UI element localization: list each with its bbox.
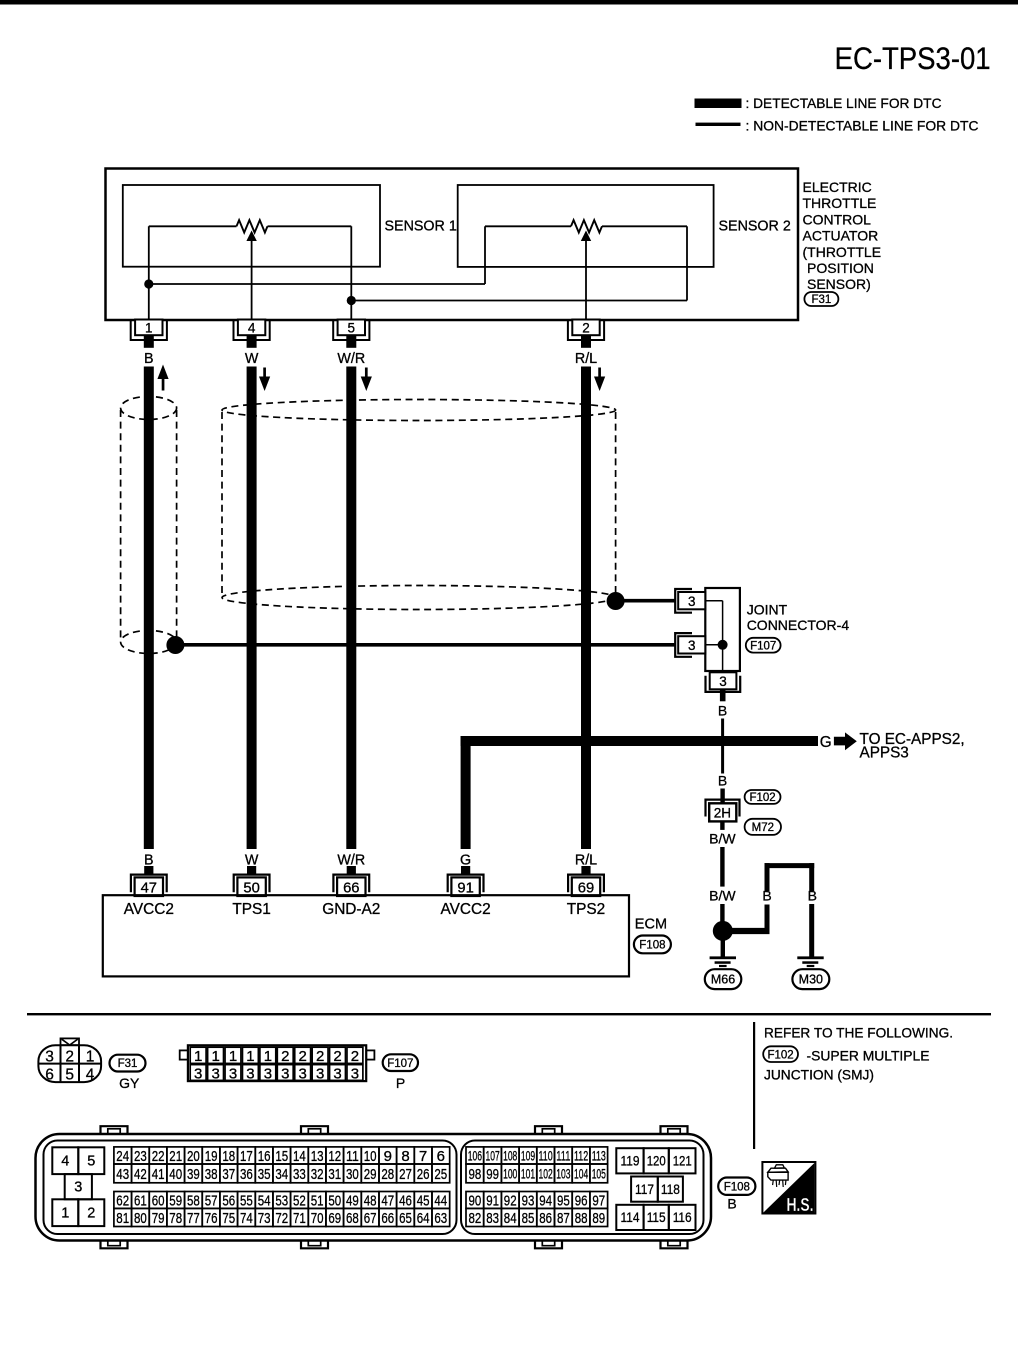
junction node on B line xyxy=(144,279,153,288)
svg-text:2: 2 xyxy=(351,1048,359,1065)
svg-text:72: 72 xyxy=(275,1210,288,1227)
svg-text:93: 93 xyxy=(522,1192,535,1209)
svg-text:B: B xyxy=(727,1196,736,1212)
connector ref F107 xyxy=(746,638,781,653)
wire: B/W upper segment xyxy=(720,847,724,887)
ECM connector large cavities right xyxy=(616,1148,695,1230)
svg-text:50: 50 xyxy=(243,880,259,896)
svg-text:1: 1 xyxy=(246,1048,254,1065)
svg-text:47: 47 xyxy=(141,880,157,896)
svg-text:30: 30 xyxy=(346,1166,359,1183)
svg-text:JOINT: JOINT xyxy=(747,602,788,618)
svg-text:3: 3 xyxy=(351,1065,359,1082)
svg-text:94: 94 xyxy=(539,1192,552,1209)
svg-text:3: 3 xyxy=(45,1049,54,1066)
svg-text:61: 61 xyxy=(134,1192,147,1209)
electric throttle control actuator box xyxy=(106,169,799,321)
svg-text:18: 18 xyxy=(222,1148,235,1165)
svg-text:6: 6 xyxy=(45,1067,54,1084)
wire W (thick vertical) xyxy=(247,367,257,850)
wire: B thin segment below G line xyxy=(721,746,724,774)
svg-text:69: 69 xyxy=(578,880,594,896)
svg-text:116: 116 xyxy=(673,1209,692,1225)
wire: pin1 riser xyxy=(148,226,150,319)
svg-text:-SUPER MULTIPLE: -SUPER MULTIPLE xyxy=(807,1048,930,1063)
svg-text:52: 52 xyxy=(293,1192,306,1209)
svg-text:1: 1 xyxy=(211,1048,219,1065)
svg-text:53: 53 xyxy=(275,1192,288,1209)
wire: node to ground stem xyxy=(721,939,725,957)
svg-text:64: 64 xyxy=(417,1210,430,1227)
wire: resistor 1 right lead xyxy=(268,225,352,227)
svg-text:25: 25 xyxy=(434,1166,447,1183)
label JUNCTION (SMJ) xyxy=(764,1068,874,1083)
svg-text:2: 2 xyxy=(316,1048,324,1065)
svg-text:POSITION: POSITION xyxy=(807,260,874,276)
wire: left B leg up xyxy=(765,863,770,934)
svg-text:48: 48 xyxy=(364,1192,377,1209)
connector ref F102 (footer) xyxy=(763,1046,798,1062)
label GY xyxy=(119,1075,140,1091)
label JOINT CONNECTOR-4 xyxy=(747,602,850,633)
svg-text:90: 90 xyxy=(469,1192,482,1209)
svg-text:46: 46 xyxy=(399,1192,412,1209)
joint connector pin 3 (top left) xyxy=(675,589,705,613)
label B (left leg) xyxy=(762,887,771,903)
svg-text:3: 3 xyxy=(246,1065,254,1082)
svg-text:65: 65 xyxy=(399,1210,412,1227)
joint connector-4 body xyxy=(705,588,740,671)
svg-text:4: 4 xyxy=(86,1067,95,1084)
svg-text:41: 41 xyxy=(152,1166,165,1183)
svg-text:89: 89 xyxy=(592,1210,605,1227)
svg-text:69: 69 xyxy=(328,1210,341,1227)
legend: non-detectable line for DTC xyxy=(696,118,979,133)
connector ref F102 xyxy=(745,790,781,804)
label B (above SMJ) xyxy=(718,772,727,788)
svg-text:AVCC2: AVCC2 xyxy=(441,901,491,918)
wire: B to SMJ 2H xyxy=(720,789,724,803)
separator line xyxy=(27,1013,991,1015)
ECM pin 91 xyxy=(448,866,484,896)
down arrow beside W/R wire xyxy=(361,368,372,392)
ECM connector pin grid right xyxy=(466,1147,608,1227)
connector ref F108 (ECM) xyxy=(634,936,671,954)
svg-text:17: 17 xyxy=(240,1148,253,1165)
svg-text:19: 19 xyxy=(205,1148,218,1165)
page top border bar xyxy=(0,0,1018,5)
ECM connector large cavities left xyxy=(52,1147,104,1226)
svg-text:78: 78 xyxy=(169,1210,182,1227)
joint connector pin 3 (lower left) xyxy=(675,633,705,657)
wire G (thick vertical) xyxy=(461,736,471,849)
svg-text:3: 3 xyxy=(688,638,696,653)
svg-text:G: G xyxy=(820,734,832,751)
svg-text:GY: GY xyxy=(119,1075,140,1091)
svg-text:F107: F107 xyxy=(387,1058,413,1070)
actuator pin 4 xyxy=(234,320,270,348)
footer divider xyxy=(753,1022,755,1149)
svg-text:60: 60 xyxy=(152,1192,165,1209)
svg-text:101: 101 xyxy=(521,1166,535,1181)
joint connector pin 3 (bottom) xyxy=(706,672,741,701)
sensor 1 sub-box xyxy=(123,185,380,267)
svg-text:CONTROL: CONTROL xyxy=(803,211,872,227)
connector ref F31 (footer) xyxy=(110,1055,146,1072)
svg-text:75: 75 xyxy=(222,1210,235,1227)
svg-text:9: 9 xyxy=(384,1148,392,1165)
svg-text:84: 84 xyxy=(504,1210,517,1227)
svg-text:3: 3 xyxy=(211,1065,219,1082)
svg-text:2: 2 xyxy=(281,1048,289,1065)
svg-text:86: 86 xyxy=(539,1210,552,1227)
svg-text:68: 68 xyxy=(346,1210,359,1227)
svg-text:2: 2 xyxy=(87,1206,95,1222)
svg-text:102: 102 xyxy=(539,1166,553,1181)
svg-text:1: 1 xyxy=(145,321,153,336)
svg-text:117: 117 xyxy=(635,1181,654,1197)
svg-text:H.S.: H.S. xyxy=(787,1195,814,1215)
label P xyxy=(396,1075,405,1091)
svg-text:24: 24 xyxy=(116,1148,129,1165)
svg-text:36: 36 xyxy=(240,1166,253,1183)
svg-text:3: 3 xyxy=(74,1180,82,1196)
svg-text:81: 81 xyxy=(116,1210,129,1227)
svg-text:70: 70 xyxy=(311,1210,324,1227)
svg-text:THROTTLE: THROTTLE xyxy=(803,195,877,211)
svg-text:34: 34 xyxy=(275,1166,288,1183)
svg-text:96: 96 xyxy=(575,1192,588,1209)
svg-text:62: 62 xyxy=(116,1192,129,1209)
ground junction node xyxy=(713,921,733,941)
connector face F31 xyxy=(38,1038,101,1083)
connector face F107 xyxy=(180,1045,375,1082)
svg-text:5: 5 xyxy=(348,321,356,336)
shield drain node (big cylinder) xyxy=(607,592,625,610)
svg-text:121: 121 xyxy=(673,1153,692,1169)
svg-text:CONNECTOR-4: CONNECTOR-4 xyxy=(747,617,850,633)
svg-text:119: 119 xyxy=(621,1153,640,1169)
H.S. view mark xyxy=(762,1162,815,1215)
label G xyxy=(820,734,832,751)
svg-text:2: 2 xyxy=(582,321,590,336)
resistor sensor 2 xyxy=(571,220,602,232)
svg-text:F107: F107 xyxy=(750,640,776,652)
ground symbol M66 xyxy=(710,956,736,967)
svg-text:107: 107 xyxy=(486,1148,500,1163)
svg-text:3: 3 xyxy=(281,1065,289,1082)
svg-text:2: 2 xyxy=(299,1048,307,1065)
svg-text:12: 12 xyxy=(328,1148,341,1165)
svg-text:1: 1 xyxy=(61,1206,69,1222)
label B/W (above ground node) xyxy=(709,887,736,903)
svg-text:66: 66 xyxy=(381,1210,394,1227)
wire R/L (thick vertical) xyxy=(581,367,591,850)
shield cylinder around W, W/R, R/L wires xyxy=(222,400,616,610)
svg-text:(THROTTLE: (THROTTLE xyxy=(803,244,882,260)
svg-text:73: 73 xyxy=(258,1210,271,1227)
wire: resistor 2 right lead xyxy=(602,225,687,227)
ECM connector face outline xyxy=(36,1126,712,1248)
svg-text:F108: F108 xyxy=(639,940,665,952)
svg-text:91: 91 xyxy=(486,1192,499,1209)
svg-text:100: 100 xyxy=(503,1166,517,1181)
svg-text:42: 42 xyxy=(134,1166,147,1183)
ECM pin 66 xyxy=(333,866,369,896)
svg-text:37: 37 xyxy=(222,1166,235,1183)
svg-text:M30: M30 xyxy=(799,973,823,987)
svg-text:SENSOR 2: SENSOR 2 xyxy=(719,219,791,235)
svg-text:15: 15 xyxy=(275,1148,288,1165)
svg-text:8: 8 xyxy=(401,1148,409,1165)
title EC-TPS3-01 xyxy=(835,40,991,76)
svg-text:M66: M66 xyxy=(711,973,735,987)
svg-text:50: 50 xyxy=(328,1192,341,1209)
connector ref F108 (footer) xyxy=(718,1178,755,1195)
svg-text:51: 51 xyxy=(311,1192,324,1209)
wire: shield drain to joint connector pin 3 (lower) xyxy=(183,643,676,647)
ECM connector pin grid left xyxy=(114,1147,450,1227)
svg-text:B/W: B/W xyxy=(709,831,736,847)
svg-text:57: 57 xyxy=(205,1192,218,1209)
svg-text:58: 58 xyxy=(187,1192,200,1209)
svg-text:B: B xyxy=(718,772,727,788)
svg-text:SENSOR): SENSOR) xyxy=(807,276,871,292)
junction node on W/R line xyxy=(347,296,356,305)
wiper arrow sensor 2 xyxy=(581,231,591,320)
svg-text:71: 71 xyxy=(293,1210,306,1227)
svg-text:ELECTRIC: ELECTRIC xyxy=(803,179,872,195)
wire: B/W lower segment xyxy=(720,904,724,922)
svg-text:F108: F108 xyxy=(724,1181,750,1193)
svg-text:120: 120 xyxy=(647,1153,666,1169)
svg-text:13: 13 xyxy=(311,1148,324,1165)
svg-text:39: 39 xyxy=(187,1166,200,1183)
label SENSOR 2 xyxy=(719,219,791,235)
svg-text:3: 3 xyxy=(719,674,727,689)
svg-text:20: 20 xyxy=(187,1148,200,1165)
svg-text:3: 3 xyxy=(194,1065,202,1082)
svg-text:88: 88 xyxy=(575,1210,588,1227)
ECM pin 69 xyxy=(568,866,604,896)
svg-text:28: 28 xyxy=(381,1166,394,1183)
svg-text:32: 32 xyxy=(311,1166,324,1183)
ECM pin 47 xyxy=(131,866,167,896)
svg-text:JUNCTION (SMJ): JUNCTION (SMJ) xyxy=(764,1068,874,1083)
actuator pin 2 xyxy=(568,320,604,348)
wire G (thick horizontal to EC-APPS2) xyxy=(461,736,818,746)
svg-text:TPS1: TPS1 xyxy=(232,901,271,918)
svg-text:3: 3 xyxy=(264,1065,272,1082)
svg-text:118: 118 xyxy=(661,1181,680,1197)
svg-text:83: 83 xyxy=(486,1210,499,1227)
label ECM xyxy=(635,916,667,932)
joint connector internal bus xyxy=(705,601,727,671)
wire: right B leg down xyxy=(809,863,814,956)
wire: B node to sensor2 left xyxy=(149,283,485,285)
svg-text:87: 87 xyxy=(557,1210,570,1227)
svg-text:SENSOR 1: SENSOR 1 xyxy=(385,219,457,235)
ECM pin 50 xyxy=(234,866,270,896)
svg-text:W: W xyxy=(245,351,259,367)
svg-text:16: 16 xyxy=(258,1148,271,1165)
svg-text:63: 63 xyxy=(434,1210,447,1227)
svg-text:GND-A2: GND-A2 xyxy=(322,901,380,918)
wire B (thick vertical) xyxy=(144,367,154,850)
svg-text:AVCC2: AVCC2 xyxy=(124,901,174,918)
svg-text:29: 29 xyxy=(364,1166,377,1183)
svg-text:1: 1 xyxy=(264,1048,272,1065)
svg-text:B: B xyxy=(762,887,771,903)
svg-text:74: 74 xyxy=(240,1210,253,1227)
svg-text:77: 77 xyxy=(187,1210,200,1227)
svg-text:23: 23 xyxy=(134,1148,147,1165)
svg-text:105: 105 xyxy=(592,1166,606,1181)
svg-text:49: 49 xyxy=(346,1192,359,1209)
wire: resistor 2 left lead xyxy=(485,225,571,227)
svg-text:47: 47 xyxy=(381,1192,394,1209)
svg-text:5: 5 xyxy=(87,1154,95,1170)
wire: branch from node to B legs xyxy=(730,928,770,934)
svg-text:F31: F31 xyxy=(811,294,831,306)
label B (below joint connector) xyxy=(718,702,727,718)
refer to the following text xyxy=(764,1024,953,1040)
svg-text:11: 11 xyxy=(346,1148,359,1165)
svg-text:B: B xyxy=(808,887,817,903)
svg-text:2: 2 xyxy=(333,1048,341,1065)
svg-text:1: 1 xyxy=(194,1048,202,1065)
svg-text:114: 114 xyxy=(621,1209,640,1225)
svg-text:67: 67 xyxy=(364,1210,377,1227)
wire: B thin segment to G line xyxy=(721,719,724,737)
svg-text:22: 22 xyxy=(152,1148,165,1165)
actuator name text xyxy=(803,179,882,292)
wire W/R (thick vertical) xyxy=(346,367,356,850)
svg-text:38: 38 xyxy=(205,1166,218,1183)
svg-text:40: 40 xyxy=(169,1166,182,1183)
svg-text:44: 44 xyxy=(434,1192,447,1209)
svg-text:35: 35 xyxy=(258,1166,271,1183)
svg-text:P: P xyxy=(396,1075,405,1091)
svg-text:43: 43 xyxy=(116,1166,129,1183)
svg-text:108: 108 xyxy=(503,1148,517,1163)
svg-text:109: 109 xyxy=(521,1148,535,1163)
svg-text:14: 14 xyxy=(293,1148,306,1165)
SMJ terminal 2H xyxy=(706,800,740,830)
svg-text:99: 99 xyxy=(486,1166,499,1183)
svg-text:ACTUATOR: ACTUATOR xyxy=(803,228,879,244)
svg-text:F31: F31 xyxy=(118,1058,138,1070)
wire color labels top xyxy=(144,351,597,367)
svg-text:33: 33 xyxy=(293,1166,306,1183)
down arrow beside W wire xyxy=(259,368,270,392)
svg-text:EC-TPS3-01: EC-TPS3-01 xyxy=(835,40,991,76)
svg-text:: NON-DETECTABLE LINE FOR DTC: : NON-DETECTABLE LINE FOR DTC xyxy=(746,118,979,133)
svg-text:1: 1 xyxy=(229,1048,237,1065)
svg-text:3: 3 xyxy=(333,1065,341,1082)
svg-text:3: 3 xyxy=(316,1065,324,1082)
shield drain node (B cylinder) xyxy=(166,636,184,654)
svg-text:REFER TO THE FOLLOWING.: REFER TO THE FOLLOWING. xyxy=(764,1024,953,1040)
legend: detectable line for DTC xyxy=(695,96,942,111)
svg-text:79: 79 xyxy=(152,1210,165,1227)
svg-text:80: 80 xyxy=(134,1210,147,1227)
label TO EC-APPS2, APPS3 xyxy=(860,731,965,762)
label -SUPER MULTIPLE xyxy=(807,1048,930,1063)
sensor 2 sub-box xyxy=(458,185,714,267)
svg-text:97: 97 xyxy=(592,1192,605,1209)
svg-text:92: 92 xyxy=(504,1192,517,1209)
resistor sensor 1 xyxy=(237,220,268,232)
svg-text:R/L: R/L xyxy=(575,351,597,367)
connector ref M72 xyxy=(745,819,781,835)
svg-text:26: 26 xyxy=(417,1166,430,1183)
svg-text:95: 95 xyxy=(557,1192,570,1209)
ECM box xyxy=(103,895,629,976)
svg-text:111: 111 xyxy=(556,1148,570,1163)
svg-text:27: 27 xyxy=(399,1166,412,1183)
svg-text:45: 45 xyxy=(417,1192,430,1209)
arrow to EC-APPS2 xyxy=(834,732,857,750)
svg-text:W/R: W/R xyxy=(337,351,365,367)
svg-text:106: 106 xyxy=(468,1148,482,1163)
svg-text:3: 3 xyxy=(299,1065,307,1082)
svg-text:56: 56 xyxy=(222,1192,235,1209)
svg-text:2: 2 xyxy=(65,1049,74,1066)
svg-text:113: 113 xyxy=(592,1148,606,1163)
wire: shield drain to joint connector pin 3 (top) xyxy=(624,599,676,603)
actuator pin 1 xyxy=(131,320,167,348)
svg-text:98: 98 xyxy=(469,1166,482,1183)
svg-text:1: 1 xyxy=(86,1049,95,1066)
svg-text:3: 3 xyxy=(688,594,696,609)
svg-text:59: 59 xyxy=(169,1192,182,1209)
svg-text:APPS3: APPS3 xyxy=(860,745,909,762)
ground ref M66 xyxy=(705,969,742,989)
connector ref F31 xyxy=(804,292,838,306)
ground ref M30 xyxy=(792,969,829,989)
svg-text:ECM: ECM xyxy=(635,916,667,932)
svg-text:B: B xyxy=(718,702,727,718)
wiper arrow sensor 1 xyxy=(246,231,256,320)
svg-text:4: 4 xyxy=(248,321,256,336)
wire: sensor2 left drop xyxy=(484,226,486,284)
svg-text:2H: 2H xyxy=(714,805,731,820)
svg-text:54: 54 xyxy=(258,1192,271,1209)
ECM pin function labels xyxy=(124,901,606,918)
svg-text:31: 31 xyxy=(328,1166,341,1183)
svg-text:4: 4 xyxy=(61,1154,69,1170)
label B/W (below SMJ) xyxy=(709,831,736,847)
svg-text:F102: F102 xyxy=(767,1049,793,1061)
svg-text:76: 76 xyxy=(205,1210,218,1227)
svg-text:85: 85 xyxy=(522,1210,535,1227)
svg-text:66: 66 xyxy=(343,880,359,896)
label B (F108 color) xyxy=(727,1196,736,1212)
svg-text:104: 104 xyxy=(574,1166,589,1181)
ground symbol M30 xyxy=(797,956,823,967)
svg-text:: DETECTABLE LINE FOR DTC: : DETECTABLE LINE FOR DTC xyxy=(746,96,942,111)
svg-text:TPS2: TPS2 xyxy=(567,901,606,918)
svg-text:103: 103 xyxy=(556,1166,570,1181)
svg-text:6: 6 xyxy=(437,1148,445,1165)
up arrow beside B wire xyxy=(157,365,168,391)
svg-text:B: B xyxy=(144,351,154,367)
svg-text:115: 115 xyxy=(647,1209,666,1225)
svg-text:55: 55 xyxy=(240,1192,253,1209)
svg-text:91: 91 xyxy=(457,880,473,896)
svg-text:82: 82 xyxy=(469,1210,482,1227)
